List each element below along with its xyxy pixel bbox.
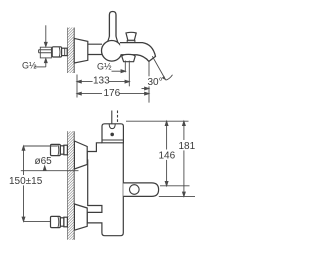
dim arrow below inlet pipe + G1/2 label (left) (34, 58, 47, 67)
dimension 150+-15 (left) (22, 146, 57, 221)
lower cone (front view) (74, 204, 87, 230)
dimension 133 (77, 80, 129, 83)
connecting pipe cone to body (side view) (88, 44, 102, 54)
arch inside head (109, 124, 115, 129)
dimension 146 (165, 121, 168, 186)
wall (side view, hatched) (67, 28, 74, 74)
svg-text:176: 176 (104, 88, 121, 99)
label diameter 65 with leader (21, 166, 79, 171)
svg-text:G½: G½ (22, 60, 37, 70)
spout capsule (front view) (123, 183, 158, 197)
svg-text:146: 146 (159, 151, 176, 162)
left extension line below cone (side view) (76, 75, 78, 98)
lower union nut (front view) (51, 216, 68, 227)
outlet extension line short (side view) (124, 61, 126, 73)
escutcheon cone (side view) (74, 38, 88, 63)
30 degree angled line with arrow hook (152, 56, 172, 80)
upper cone (front view) (74, 141, 87, 169)
svg-text:150±15: 150±15 (9, 176, 43, 187)
diverter knob (side view) (126, 32, 136, 40)
handle stubs above head (front view) (111, 111, 113, 124)
valve body circle (side view) (102, 41, 123, 62)
svg-text:181: 181 (179, 141, 196, 152)
dot on head (110, 133, 114, 137)
outlet extension line long (side view) (128, 61, 130, 87)
upper union nut (front view) (51, 144, 68, 155)
dim arrow above inlet pipe (G1/2 top) (44, 25, 47, 46)
dimension 181 (183, 121, 186, 196)
line across head bottom (102, 139, 123, 141)
svg-text:ø65: ø65 (35, 156, 53, 167)
shower outlet under spout (side view) (122, 54, 135, 61)
30 degree arc arrow at vertical line (142, 87, 149, 90)
dimension 176 (77, 92, 149, 95)
lever handle (side view) (109, 12, 116, 40)
svg-text:30°: 30° (148, 77, 163, 88)
right extension lines (front view) (126, 121, 195, 196)
spout tip vertical extension line (side view) (148, 62, 150, 103)
mixer body outline (front view) (87, 143, 123, 236)
label 30deg (147, 76, 163, 88)
svg-text:G½: G½ (97, 61, 112, 71)
wall (front view, hatched) (67, 131, 74, 240)
svg-text:133: 133 (93, 76, 110, 87)
union nut (side view) (52, 47, 67, 57)
head box (front view) (102, 124, 123, 143)
inlet pipe behind wall (side view) (39, 47, 53, 58)
spout (side view) (120, 43, 156, 62)
outlet hole in capsule (130, 185, 140, 195)
